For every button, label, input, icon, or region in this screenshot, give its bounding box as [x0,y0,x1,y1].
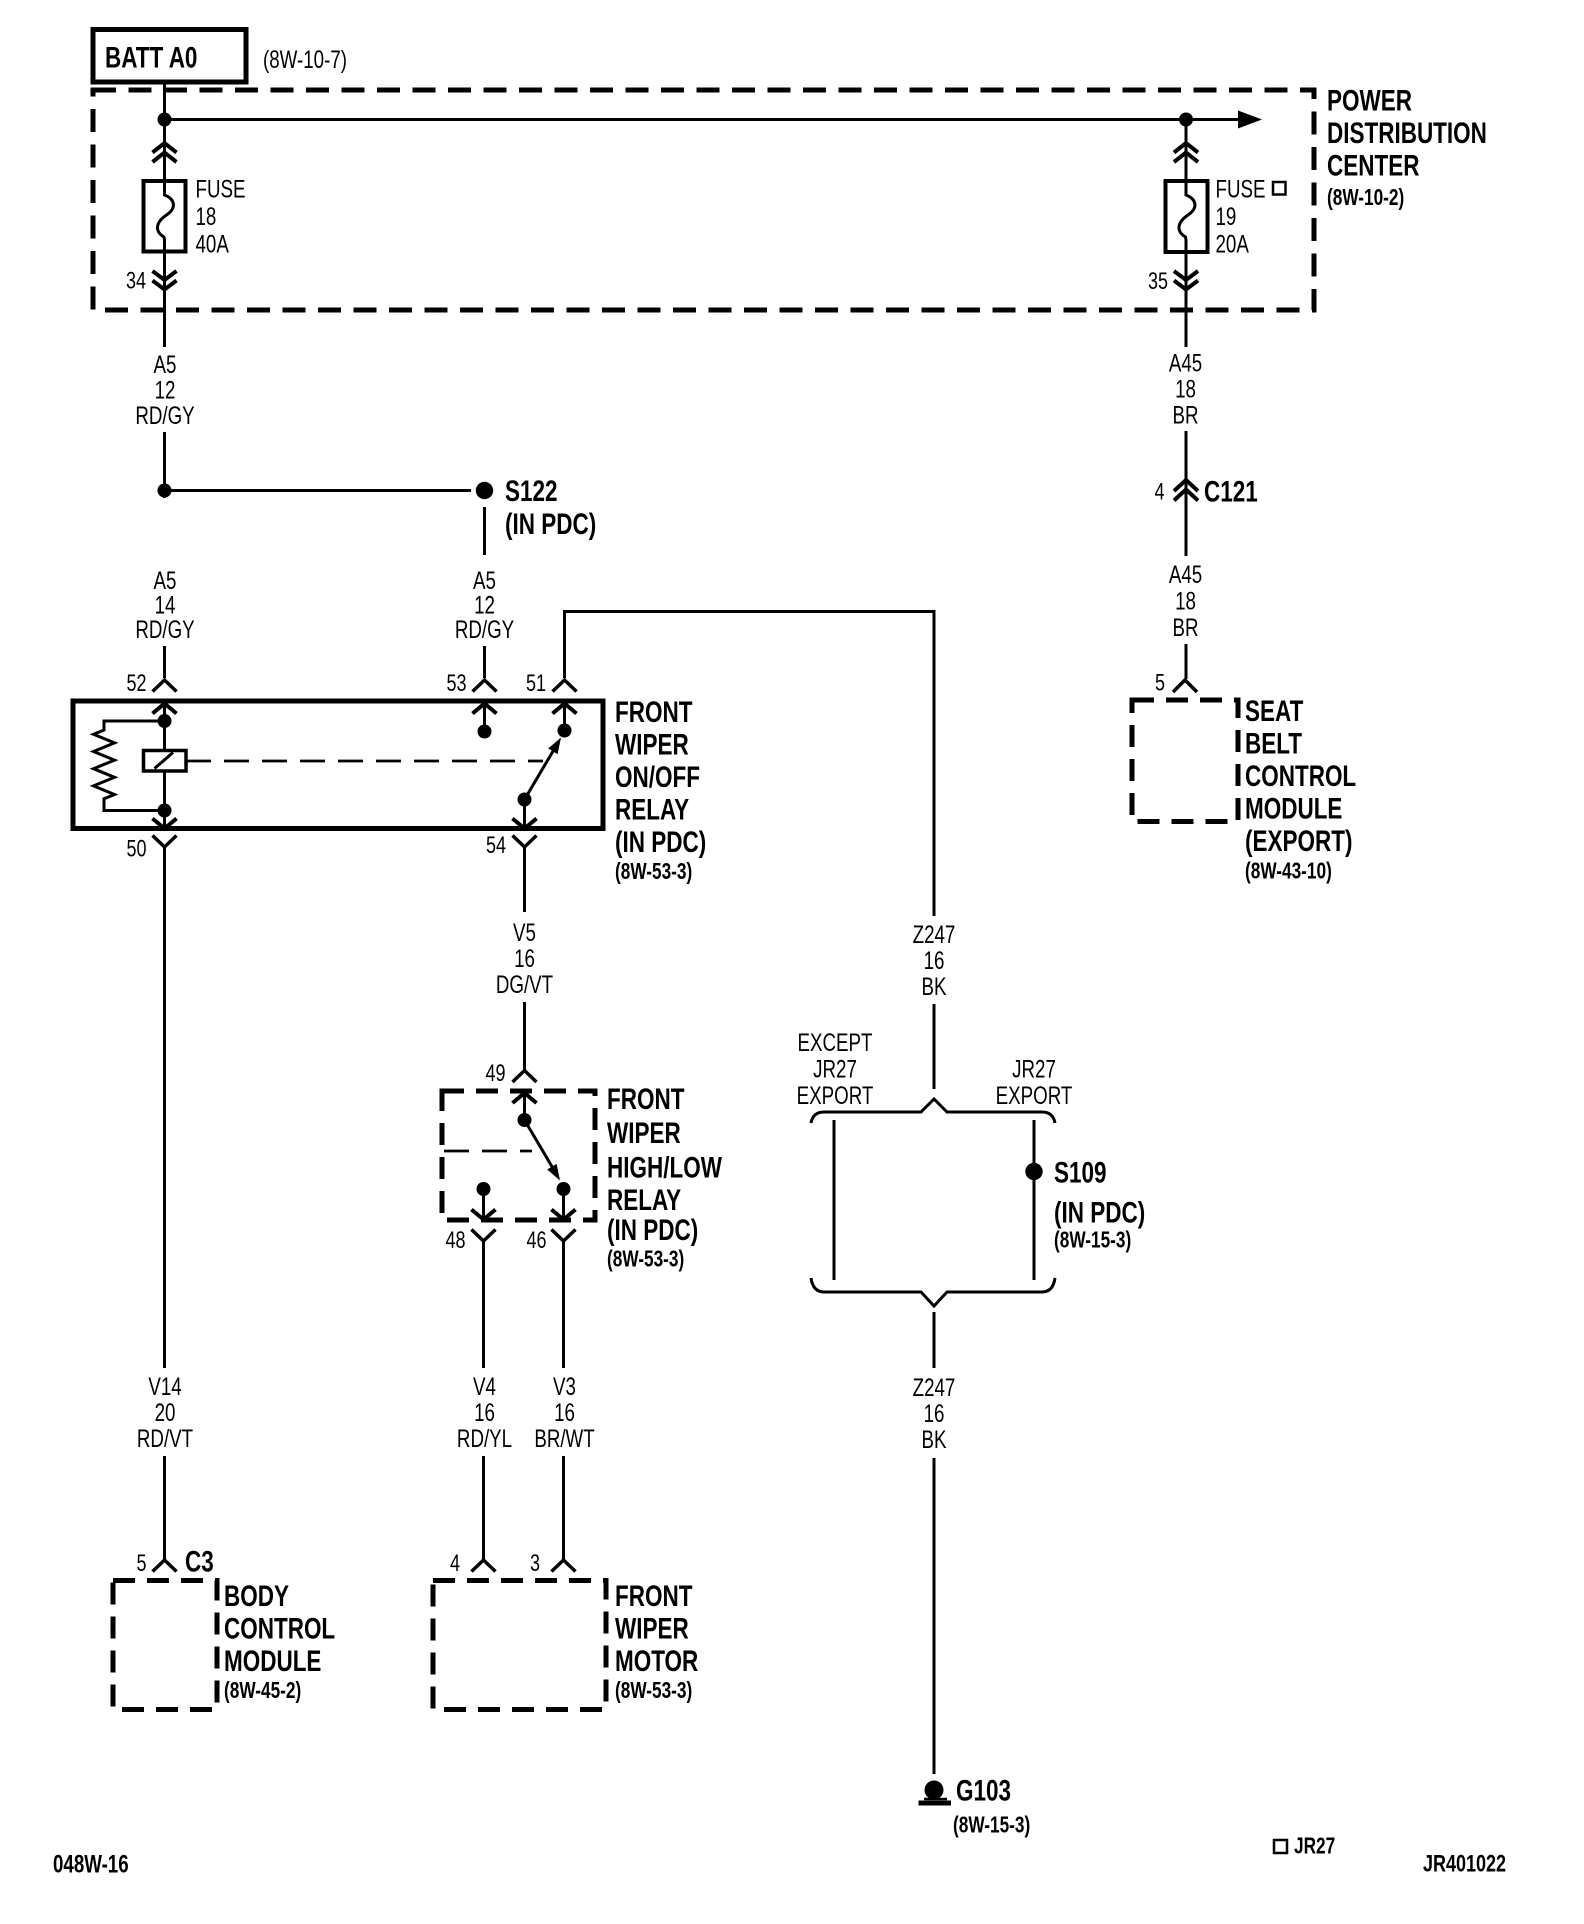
label wire V5 16 DG/VT [496,918,553,998]
svg-text:50: 50 [126,836,146,862]
svg-text:S122: S122 [505,474,558,508]
bottom brace [811,1278,1055,1306]
svg-text:(IN PDC): (IN PDC) [1054,1195,1145,1229]
wire common to pin 54 [523,800,526,829]
body control module dashed box [113,1581,217,1710]
pin 46 chevron inside relay [552,1210,576,1220]
svg-text:5: 5 [1155,670,1165,696]
label wire V4 16 RD/YL [457,1372,512,1452]
svg-text:20: 20 [155,1398,176,1426]
svg-text:35: 35 [1148,269,1168,295]
svg-text:(8W-53-3): (8W-53-3) [615,1679,692,1704]
relay coil [144,751,187,772]
svg-text:34: 34 [126,268,146,294]
pin 51 chevron inside relay [553,704,577,714]
svg-text:MODULE: MODULE [224,1644,321,1678]
svg-text:40A: 40A [196,230,230,258]
wire brace to Z247 label [933,1312,936,1368]
reference (8W-10-7) [263,45,347,73]
node coil bottom junction [158,804,172,818]
svg-text:53: 53 [446,671,466,697]
connector Y pin 48 [445,1228,495,1254]
wire splice link [165,489,472,492]
node junction at S122 branch [158,484,172,498]
svg-text:CONTROL: CONTROL [224,1611,335,1645]
svg-text:16: 16 [554,1398,575,1426]
label POWER DISTRIBUTION CENTER [1327,83,1487,210]
svg-text:WIPER: WIPER [615,1611,689,1645]
svg-text:V14: V14 [148,1372,181,1400]
wire pin 52 to coil [163,704,166,751]
svg-text:JR27: JR27 [1294,1834,1335,1859]
connector Y pin 51 [526,671,577,697]
node pin 48 contact [477,1182,491,1196]
svg-text:BK: BK [922,1425,947,1453]
wire except-JR27 branch [833,1120,836,1280]
connector Y motor pin 4 [450,1551,496,1577]
connector Y pin 49 [485,1061,536,1087]
svg-text:JR401022: JR401022 [1423,1851,1506,1877]
label wire Z247 16 BK upper [913,920,956,1000]
svg-text:(8W-43-10): (8W-43-10) [1245,859,1332,884]
svg-text:(8W-45-2): (8W-45-2) [224,1679,301,1704]
wire to BCM pin 5 [163,1456,166,1559]
splice S122 [476,474,596,541]
svg-text:(8W-15-3): (8W-15-3) [953,1813,1030,1838]
svg-text:Z247: Z247 [913,1373,956,1401]
svg-text:52: 52 [126,671,146,697]
svg-text:MOTOR: MOTOR [615,1644,698,1678]
fuse 19 20A [1166,181,1208,252]
svg-text:FRONT: FRONT [615,1579,692,1613]
relay switch arm [525,738,562,800]
pin 35 chevrons [1148,269,1198,295]
label JR27 EXPORT [996,1055,1073,1110]
svg-text:SEAT: SEAT [1245,694,1303,728]
label FRONT WIPER MOTOR [615,1579,698,1704]
svg-text:(8W-53-3): (8W-53-3) [615,860,692,885]
pin 48 chevron inside relay [472,1210,496,1220]
BATT A0 feed box [93,30,246,83]
svg-text:18: 18 [196,202,217,230]
svg-text:5: 5 [136,1551,146,1577]
svg-text:54: 54 [486,833,506,859]
label wire A45 18 BR upper [1169,349,1202,429]
svg-text:S109: S109 [1054,1155,1107,1189]
relay interior dashed line [444,1150,532,1153]
svg-text:BELT: BELT [1245,726,1302,760]
wire pin 51 stub [563,704,566,728]
label BODY CONTROL MODULE [224,1579,335,1704]
pin 49 chevron inside relay [513,1093,537,1103]
wire through C121 [1185,431,1188,556]
svg-text:BK: BK [922,972,947,1000]
svg-text:G103: G103 [956,1773,1011,1807]
legend JR27 square [1274,1834,1335,1859]
svg-text:51: 51 [526,671,546,697]
splice S109 [1025,1155,1145,1253]
wire into relay pin 52 [163,646,166,678]
wire coil to pin 50 [163,771,166,829]
svg-text:EXCEPT: EXCEPT [798,1028,873,1056]
wire pin 53 stub [483,704,486,729]
node pin 46 contact [557,1182,571,1196]
connector Y pin 53 [446,671,496,697]
wire pin 48 down [482,1241,485,1368]
svg-text:49: 49 [485,1061,505,1087]
node switch common [518,793,532,807]
svg-text:RD/GY: RD/GY [455,615,515,643]
svg-text:20A: 20A [1216,230,1250,258]
svg-text:3: 3 [530,1551,540,1577]
node coil top junction [158,714,172,728]
FRONT WIPER ON/OFF RELAY box [73,701,603,829]
connector chevrons above fuse 19 [1174,143,1198,162]
svg-text:19: 19 [1216,202,1237,230]
label SEAT BELT CONTROL MODULE [1245,694,1356,884]
svg-text:A5: A5 [154,350,177,378]
svg-text:A45: A45 [1169,349,1202,377]
label wire Z247 16 BK lower [913,1373,956,1453]
svg-text:BR: BR [1172,401,1198,429]
wire pin 46 down [562,1241,565,1368]
node bus junction right [1179,113,1193,127]
wire pin 49 stub [523,1093,526,1117]
label wire A5 14 RD/GY [135,566,195,643]
svg-text:46: 46 [526,1228,546,1254]
svg-text:(8W-10-2): (8W-10-2) [1327,186,1404,211]
svg-text:12: 12 [155,376,176,404]
wire from relay pin 51 up and over to Z247 [565,612,935,917]
footer drawing number JR401022 [1423,1851,1506,1877]
svg-text:RD/GY: RD/GY [135,615,195,643]
connector C121 pin 4 chevrons [1154,474,1257,508]
svg-text:CENTER: CENTER [1327,148,1419,182]
svg-text:MODULE: MODULE [1245,791,1342,825]
fuse 18 40A [144,181,186,252]
svg-text:V3: V3 [553,1372,576,1400]
svg-text:C3: C3 [185,1544,214,1578]
wire pin 50 down [163,847,166,1368]
connector Y pin 54 [486,833,537,859]
wire JR27 export branch [1033,1120,1036,1280]
wire BATT A0 lead down [163,82,166,181]
wire into relay pin 53 [483,646,486,678]
svg-text:ON/OFF: ON/OFF [615,760,700,794]
svg-text:WIPER: WIPER [615,727,689,761]
svg-text:RD/VT: RD/VT [137,1424,193,1452]
svg-text:18: 18 [1175,587,1196,615]
wire fuse 18 to pin 34 [163,252,166,348]
svg-text:A45: A45 [1169,560,1202,588]
svg-text:18: 18 [1175,375,1196,403]
svg-text:(8W-53-3): (8W-53-3) [607,1247,684,1272]
svg-text:BR/WT: BR/WT [534,1424,594,1452]
connector Y motor pin 3 [530,1551,576,1577]
svg-text:BODY: BODY [224,1579,289,1613]
wire Z247 to brace [933,1004,936,1089]
connector chevrons above fuse 18 [153,143,177,162]
connector Y pin 52 [126,671,176,697]
svg-text:Z247: Z247 [913,920,956,948]
svg-text:(IN PDC): (IN PDC) [607,1213,698,1247]
svg-text:JR27: JR27 [813,1055,857,1083]
svg-text:16: 16 [514,944,535,972]
seat belt control module dashed box [1132,700,1238,822]
pin 53 chevron inside relay [473,704,497,714]
label wire A45 18 BR lower [1169,560,1202,641]
top brace [811,1099,1055,1123]
wire pin 46 stub [562,1189,565,1219]
svg-text:BATT A0: BATT A0 [105,40,197,74]
wire A5 upper segment [163,310,166,347]
svg-text:FRONT: FRONT [615,695,692,729]
wire below S122 [483,507,486,555]
svg-text:(EXPORT): (EXPORT) [1245,824,1352,858]
svg-text:WIPER: WIPER [607,1116,681,1150]
high/low switch arm [525,1120,561,1181]
label wire A5 12 RD/GY [135,350,195,429]
svg-text:POWER: POWER [1327,83,1412,117]
svg-text:16: 16 [924,1399,945,1427]
connector Y pin 46 [526,1228,575,1254]
svg-text:RD/GY: RD/GY [135,401,195,429]
svg-text:FUSE: FUSE [1216,175,1266,203]
svg-text:JR27: JR27 [1012,1055,1056,1083]
pin 52 chevron inside relay [153,704,177,714]
wire Z247 to ground [933,1458,936,1774]
svg-text:EXPORT: EXPORT [797,1081,874,1109]
wire to splice S122 [163,432,166,498]
svg-text:4: 4 [450,1551,460,1577]
svg-text:(IN PDC): (IN PDC) [615,825,706,859]
label wire V14 20 RD/VT [137,1372,193,1452]
wire bus to fuse 19 [1185,120,1188,182]
wire to motor pin 3 [562,1456,565,1559]
svg-text:V5: V5 [513,918,536,946]
svg-text:(8W-15-3): (8W-15-3) [1054,1228,1131,1253]
wire pin 54 down [523,847,526,912]
FRONT WIPER HIGH/LOW RELAY dashed box [442,1091,595,1220]
relay coil dashed actuator line [186,760,543,763]
svg-text:EXPORT: EXPORT [996,1081,1073,1109]
svg-text:DG/VT: DG/VT [496,970,553,998]
wire to motor pin 4 [482,1456,485,1559]
label FUSE 18 40A [196,175,246,258]
svg-text:CONTROL: CONTROL [1245,759,1356,793]
svg-text:V4: V4 [473,1372,496,1400]
resistor (relay suppression) [94,721,165,811]
wire bus arrow continuation [1186,111,1262,129]
PDC dashed box [93,90,1314,310]
connector Y seat belt pin 5 [1155,670,1197,696]
pin 34 chevrons [126,268,177,294]
node pin 51 contact [558,724,572,738]
connector Y pin 5 C3 [136,1544,213,1578]
footer sheet number 048W-16 [53,1850,129,1878]
wire V5 to pin 49 [523,1002,526,1070]
node switch pivot [518,1113,532,1127]
wire to seat belt module pin 5 [1185,644,1188,679]
connector Y pin 50 [126,836,176,863]
svg-text:RELAY: RELAY [615,792,689,826]
label wire A5 12 RD/GY (S122 leg) [455,566,515,643]
label EXCEPT JR27 EXPORT [797,1028,874,1109]
svg-text:DISTRIBUTION: DISTRIBUTION [1327,116,1487,150]
svg-text:16: 16 [474,1398,495,1426]
label FRONT WIPER HIGH/LOW RELAY [607,1082,722,1272]
svg-text:FRONT: FRONT [607,1082,684,1116]
svg-text:C121: C121 [1204,474,1258,508]
wire pin 48 stub [482,1189,485,1219]
label wire V3 16 BR/WT [534,1372,594,1452]
svg-text:RD/YL: RD/YL [457,1424,512,1452]
wire fuse 19 leg below PDC [1185,310,1188,347]
svg-text:HIGH/LOW: HIGH/LOW [607,1150,722,1184]
node bus junction left [158,113,172,127]
node pin 53 dead end [478,725,492,739]
front wiper motor dashed box [433,1581,606,1710]
ground G103 [919,1773,1031,1838]
svg-text:(8W-10-7): (8W-10-7) [263,45,347,73]
svg-text:16: 16 [924,946,945,974]
label FRONT WIPER ON/OFF RELAY [615,695,706,885]
svg-text:BR: BR [1172,613,1198,641]
svg-text:FUSE: FUSE [196,175,246,203]
svg-text:4: 4 [1154,479,1164,505]
svg-text:RELAY: RELAY [607,1183,681,1217]
label FUSE 19 20A with JR27 square [1216,175,1286,258]
pin 54 chevron inside relay [513,819,537,829]
wire horizontal bus in PDC [165,118,1187,121]
pin 50 chevron inside relay [153,819,177,829]
svg-text:(IN PDC): (IN PDC) [505,507,596,541]
svg-text:048W-16: 048W-16 [53,1850,129,1878]
svg-text:48: 48 [445,1228,465,1254]
wire fuse 19 to pin 35 [1185,252,1188,347]
